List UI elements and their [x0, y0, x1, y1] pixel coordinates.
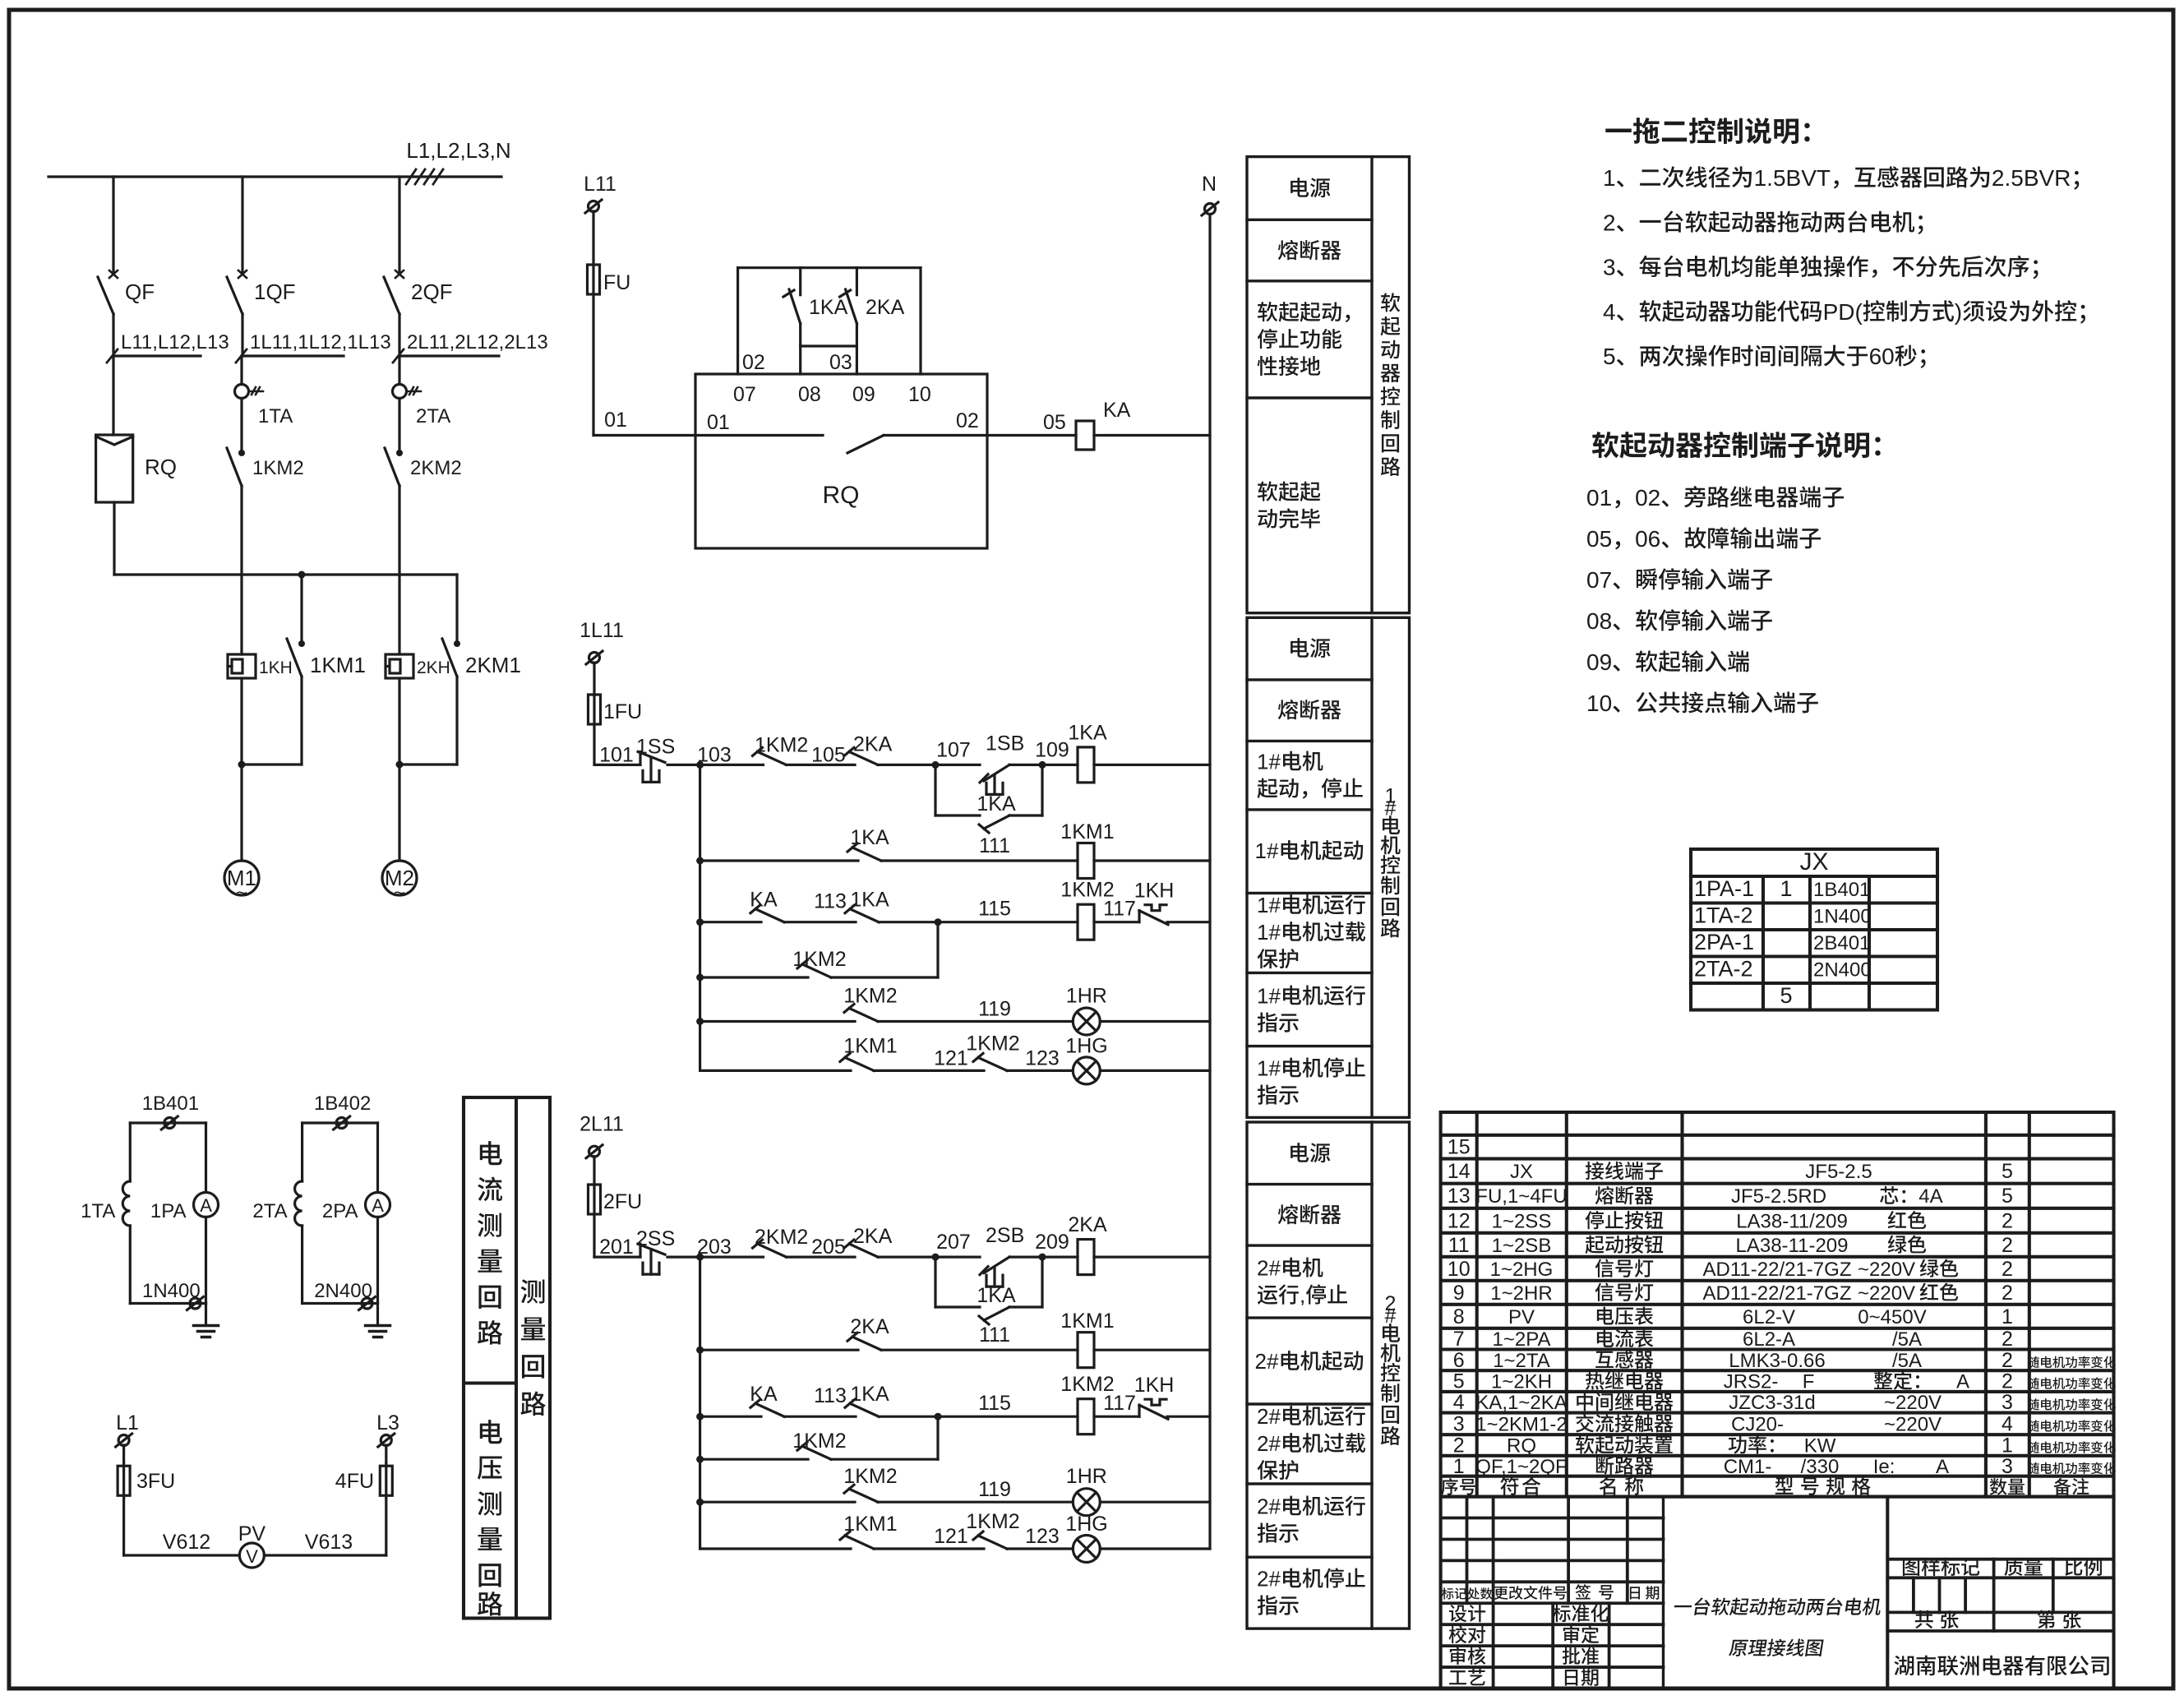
- bypass contact 1KM1: [242, 639, 302, 765]
- wire bus drop to breaker 2QF: [398, 177, 400, 271]
- svg-text:LMK3-0.66: LMK3-0.66: [1729, 1350, 1825, 1372]
- svg-text:1KH: 1KH: [259, 658, 293, 677]
- svg-text:2B401: 2B401: [1813, 932, 1870, 954]
- svg-text:1HR: 1HR: [1066, 985, 1107, 1008]
- svg-text:5: 5: [2002, 1185, 2013, 1208]
- label 1KM1: [1060, 1310, 1114, 1333]
- label 107: [936, 738, 971, 761]
- svg-text:L11: L11: [584, 173, 616, 196]
- svg-text:KA: KA: [750, 1383, 778, 1406]
- rung3 wire to N: [1167, 921, 1210, 923]
- svg-text:1KH: 1KH: [1134, 880, 1175, 903]
- svg-text:1B402: 1B402: [314, 1093, 371, 1115]
- svg-text:2SS: 2SS: [636, 1227, 675, 1250]
- contact 2KM2: [753, 1240, 787, 1257]
- label current measuring loop: [478, 1141, 502, 1345]
- labels 图样标记 质量 比例: [1903, 1558, 2102, 1576]
- terminal 1L11: [586, 651, 603, 664]
- svg-text:13: 13: [1448, 1185, 1471, 1208]
- svg-text:1KM1: 1KM1: [1060, 1310, 1114, 1333]
- breaker 1QF: [227, 270, 247, 356]
- svg-text:): ): [1955, 299, 1962, 325]
- svg-text:L11,L12,L13: L11,L12,L13: [121, 331, 229, 353]
- svg-text:AD11-22/21-7GZ: AD11-22/21-7GZ: [1703, 1259, 1852, 1281]
- fuse 2FU: [589, 1185, 601, 1214]
- CT loop top wire, terminal 1B401: [130, 1116, 205, 1129]
- svg-text:2SB: 2SB: [986, 1224, 1024, 1247]
- svg-text:JZC3-31d: JZC3-31d: [1729, 1392, 1815, 1414]
- rung3 wire, label 113: [784, 1416, 856, 1418]
- svg-text:1B401: 1B401: [142, 1093, 199, 1115]
- contactor coil 1KM2: [1078, 1399, 1094, 1434]
- svg-text:LA38-11-209: LA38-11-209: [1736, 1235, 1849, 1257]
- label 1HR: [1066, 1465, 1107, 1488]
- label L11: [584, 173, 616, 196]
- svg-text:1SS: 1SS: [636, 735, 675, 758]
- BOM table grid: [1441, 1112, 2114, 1497]
- function table box soft starter control loop: [1247, 157, 1410, 613]
- stop button 2SS: [638, 1244, 665, 1274]
- thermal contact 1KH: [1139, 1399, 1168, 1419]
- wire join to motor M1: [240, 765, 242, 861]
- svg-text:2FU: 2FU: [603, 1190, 642, 1213]
- label 1N400: [142, 1280, 201, 1302]
- connector wire 02-03: [801, 344, 857, 347]
- svg-text:60: 60: [1869, 344, 1895, 369]
- label KA: [750, 889, 778, 912]
- svg-text:111: 111: [979, 1324, 1010, 1347]
- svg-text:2QF: 2QF: [411, 279, 453, 304]
- svg-text:2#: 2#: [1257, 1404, 1281, 1429]
- rung5 wire: [700, 1547, 851, 1550]
- svg-text:AD11-22/21-7GZ: AD11-22/21-7GZ: [1703, 1282, 1852, 1305]
- label 1HR: [1066, 985, 1107, 1008]
- svg-text:1.5BVT: 1.5BVT: [1754, 165, 1831, 191]
- svg-text:1#: 1#: [1257, 750, 1281, 774]
- label 1B402: [314, 1093, 371, 1115]
- label 1KM2: [755, 733, 808, 756]
- svg-text:~: ~: [236, 882, 247, 904]
- label 01 wire number: [604, 409, 627, 432]
- ground: [366, 1304, 390, 1337]
- right info block grid: [1887, 1497, 2113, 1688]
- wire node to coil 2KA: [1042, 1255, 1078, 1258]
- wire CT to contact 1KM2: [240, 399, 242, 450]
- svg-text:1KA: 1KA: [1068, 721, 1107, 744]
- label 2QF: [411, 279, 453, 304]
- svg-text:2KM2: 2KM2: [410, 457, 462, 479]
- svg-text:205: 205: [811, 1236, 846, 1259]
- svg-text:2: 2: [2002, 1282, 2013, 1305]
- svg-text:2: 2: [2002, 1209, 2013, 1232]
- contact KA rung3: [750, 905, 784, 922]
- left branch bus: [699, 765, 701, 1070]
- label 1KA: [809, 296, 848, 319]
- label terminal 03: [829, 351, 852, 374]
- svg-text:1TA-2: 1TA-2: [1694, 903, 1753, 928]
- rung2 wire to coil, label 111: [881, 1349, 1078, 1351]
- label terminal 08: [798, 383, 821, 406]
- svg-text:09: 09: [852, 383, 875, 406]
- ammeter 1PA: [194, 1123, 219, 1304]
- svg-text:PD(: PD(: [1823, 299, 1863, 325]
- svg-text:115: 115: [978, 898, 1011, 921]
- label 4FU: [335, 1470, 374, 1493]
- svg-text:RQ: RQ: [823, 482, 860, 509]
- label 2KH: [417, 658, 450, 677]
- label 1KH: [259, 658, 293, 677]
- label FU: [603, 271, 630, 294]
- wire to node 209: [1009, 1254, 1046, 1261]
- label 109: [1035, 738, 1069, 761]
- svg-text:2KA: 2KA: [866, 296, 905, 319]
- note title 软起动器控制端子说明: [1592, 432, 1881, 459]
- contact 1KM2 sub branch: [797, 960, 831, 977]
- start button 2SB: [980, 1257, 1009, 1287]
- svg-text:KA: KA: [1103, 399, 1131, 422]
- label 2FU: [603, 1190, 642, 1213]
- svg-text:JX: JX: [1800, 848, 1829, 875]
- ground: [194, 1304, 219, 1337]
- label 1QF: [254, 279, 296, 304]
- BOM row 15 empty: [1448, 1136, 1471, 1159]
- company name 湖南联洲电器有限公司: [1894, 1656, 2108, 1676]
- svg-text:KW: KW: [1804, 1435, 1836, 1457]
- svg-text:06: 06: [1635, 526, 1660, 552]
- svg-text:7: 7: [1453, 1328, 1465, 1351]
- relay contact 1KA (terminal 08): [783, 268, 801, 374]
- rung5 wire, label 123: [1007, 1069, 1073, 1072]
- svg-text:2: 2: [2002, 1234, 2013, 1257]
- rung5 wire to N: [1100, 1069, 1210, 1072]
- svg-text:123: 123: [1025, 1525, 1060, 1548]
- rung3 wire to coil, label 115: [879, 918, 1078, 926]
- svg-text:Ie:: Ie:: [1873, 1456, 1895, 1478]
- wire L11 to fuse FU: [592, 211, 594, 265]
- contact 1KM2 rung4: [844, 1485, 878, 1502]
- svg-text:10: 10: [908, 383, 931, 406]
- svg-text:1N400: 1N400: [142, 1280, 201, 1302]
- wire to branch node 103: [667, 761, 704, 769]
- label 1TA: [258, 405, 293, 427]
- rung5 wire: [700, 1069, 851, 1072]
- thermal contact 1KH: [1139, 905, 1168, 925]
- terminal L1: [116, 1434, 132, 1447]
- svg-text:1KA: 1KA: [977, 1284, 1016, 1307]
- svg-text:4FU: 4FU: [335, 1470, 374, 1493]
- terminal note line 1: [1586, 485, 1844, 510]
- function label 软起起: [1258, 482, 1320, 529]
- terminal L3: [378, 1434, 395, 1447]
- BOM row 12 1~2SS: [1448, 1209, 2013, 1232]
- label 2TA: [416, 405, 450, 427]
- svg-text:1: 1: [2002, 1434, 2013, 1457]
- BOM row 14 JX: [1448, 1160, 2013, 1183]
- bypass branch wire 1KM1: [298, 575, 305, 647]
- label 设计 标准化: [1449, 1605, 1609, 1622]
- label terminal 02 inside: [956, 409, 979, 432]
- wire voltmeter to 4FU, label V613: [264, 1499, 386, 1555]
- label KA: [1103, 399, 1131, 422]
- contact 2KA rung2: [847, 1333, 881, 1350]
- terminal N: [1202, 202, 1218, 215]
- svg-text:2N400: 2N400: [314, 1280, 372, 1302]
- contact 1KA rung3: [845, 1399, 879, 1416]
- svg-text:PV: PV: [1508, 1306, 1535, 1328]
- wire node to contact 2KM2: [700, 1255, 764, 1258]
- title block left grid: [1441, 1497, 1664, 1688]
- BOM row 10 1~2HG: [1448, 1258, 2013, 1281]
- svg-text:~: ~: [394, 882, 405, 904]
- label 1KA rung2: [850, 826, 889, 849]
- function group label motor2 control loop: [1381, 1292, 1401, 1445]
- svg-text:1KM2: 1KM2: [755, 733, 808, 756]
- svg-text:1~2SB: 1~2SB: [1492, 1235, 1552, 1257]
- svg-text:01: 01: [604, 409, 627, 432]
- label 2KA: [1068, 1213, 1107, 1236]
- rung4 wire to N: [1100, 1501, 1210, 1504]
- rung3 wire: [696, 1413, 761, 1421]
- label 2KM1: [465, 653, 521, 677]
- svg-text:08: 08: [798, 383, 821, 406]
- svg-text:F: F: [1803, 1371, 1815, 1393]
- svg-text:2: 2: [2002, 1328, 2013, 1351]
- label 1KA rung3: [850, 1383, 889, 1406]
- svg-text:119: 119: [978, 1478, 1011, 1501]
- function label 电源: [1291, 638, 1330, 658]
- svg-text:1KM2: 1KM2: [843, 985, 897, 1008]
- svg-text:1: 1: [1780, 876, 1793, 901]
- svg-text:1~2PA: 1~2PA: [1493, 1328, 1551, 1351]
- contact 1KM2: [753, 747, 787, 765]
- svg-text:121: 121: [934, 1046, 968, 1069]
- svg-text:2: 2: [2002, 1258, 2013, 1281]
- svg-text:1L11,1L12,1L13: 1L11,1L12,1L13: [250, 331, 391, 353]
- svg-text:6L2-A: 6L2-A: [1743, 1328, 1795, 1351]
- label 1KM2 sub branch: [792, 948, 846, 971]
- rung2 wire to N: [1094, 1349, 1210, 1351]
- label 2KM2: [410, 457, 462, 479]
- terminal note line 5: [1586, 649, 1749, 675]
- function label 软起起动，: [1258, 302, 1351, 376]
- label L1,L2,L3,N: [406, 138, 510, 163]
- wire to node 207: [878, 1254, 940, 1261]
- svg-text:PV: PV: [238, 1522, 266, 1545]
- contact 1KM2 sub branch: [797, 1442, 831, 1459]
- terminal note line 4: [1586, 608, 1772, 634]
- function label 2#电机运行: [1257, 1404, 1365, 1480]
- label 203: [697, 1236, 732, 1259]
- svg-text:1PA: 1PA: [150, 1200, 187, 1222]
- svg-text:1KM1: 1KM1: [1060, 820, 1114, 843]
- svg-text:05: 05: [1043, 411, 1066, 434]
- terminal note line 3: [1586, 567, 1772, 593]
- svg-text:1~2HG: 1~2HG: [1490, 1259, 1554, 1281]
- label 2N400: [314, 1280, 372, 1302]
- label terminal 10: [908, 383, 931, 406]
- svg-text:07: 07: [733, 383, 756, 406]
- rung3 wire, label 117: [1094, 1416, 1139, 1418]
- svg-text:07: 07: [1586, 567, 1612, 593]
- BOM row 3 1~2KM1-2: [1453, 1412, 2116, 1435]
- fuse FU: [588, 265, 600, 294]
- measurement loop band table: [464, 1097, 550, 1619]
- wire, label 105: [787, 764, 856, 766]
- terminal L11: [585, 200, 602, 213]
- svg-text:117: 117: [1103, 898, 1136, 921]
- BOM row 8 PV: [1453, 1305, 2013, 1328]
- svg-text:103: 103: [697, 743, 732, 766]
- feeder tick line L11,L12,L13: [107, 349, 201, 363]
- contactor coil 1KM1: [1078, 1333, 1094, 1368]
- wire node to contact 1KM2: [700, 764, 764, 766]
- sub branch wire up to rung3: [831, 1416, 938, 1459]
- label 1KM2 sub branch: [792, 1430, 846, 1453]
- svg-text:117: 117: [1103, 1392, 1136, 1415]
- label 2SS: [636, 1227, 675, 1250]
- wire FU to rung, node 01: [593, 294, 695, 436]
- label 1KM2 coil: [1060, 879, 1114, 902]
- svg-text:1KA: 1KA: [850, 1383, 889, 1406]
- svg-text:~220V: ~220V: [1858, 1259, 1915, 1281]
- svg-text:3: 3: [1453, 1412, 1465, 1435]
- svg-text:V613: V613: [305, 1531, 353, 1554]
- contact 1KM2 rung5: [973, 1531, 1007, 1549]
- svg-text:RQ: RQ: [1507, 1435, 1536, 1457]
- JX row 1: [1694, 876, 1870, 901]
- svg-text:JRS2-: JRS2-: [1724, 1371, 1779, 1393]
- svg-text:QF,1~2QF: QF,1~2QF: [1475, 1456, 1567, 1478]
- JX row 4: [1694, 957, 1872, 982]
- svg-text:111: 111: [979, 834, 1010, 857]
- wire to branch node 203: [667, 1254, 704, 1261]
- label 3FU: [136, 1470, 175, 1493]
- contact KA rung3: [750, 1399, 784, 1416]
- BOM row 6 1~2TA: [1453, 1349, 2116, 1372]
- function label 熔断器: [1278, 240, 1341, 261]
- label JX: [1800, 848, 1829, 875]
- svg-text:2KA: 2KA: [1068, 1213, 1107, 1236]
- wire RQ output down: [113, 502, 115, 575]
- rung3 wire, label 117: [1094, 921, 1139, 923]
- svg-text:02: 02: [1635, 485, 1660, 510]
- ammeter 2PA: [366, 1123, 390, 1304]
- contact 2KA: [844, 1240, 878, 1257]
- rung4 wire to N: [1100, 1020, 1210, 1023]
- RQ internal bypass contact: [695, 436, 987, 454]
- thermal relay element 2KH: [386, 654, 413, 678]
- function label 2#电机起动: [1255, 1349, 1364, 1374]
- svg-text:3: 3: [2002, 1391, 2013, 1414]
- svg-text:1KM2: 1KM2: [252, 457, 304, 479]
- svg-text:A: A: [372, 1195, 384, 1216]
- rung2 wire to N: [1094, 859, 1210, 862]
- label terminal 07: [733, 383, 756, 406]
- motor M2: [382, 861, 417, 904]
- svg-text:1KM1: 1KM1: [310, 653, 366, 677]
- JX terminal table grid: [1691, 849, 1937, 1010]
- stop button 1SS: [638, 751, 665, 782]
- svg-text:1~2HR: 1~2HR: [1490, 1282, 1552, 1305]
- function table box motor2 control loop: [1247, 1122, 1410, 1628]
- svg-text:2L11: 2L11: [579, 1113, 624, 1136]
- svg-text:203: 203: [697, 1236, 732, 1259]
- svg-text:2PA-1: 2PA-1: [1694, 930, 1754, 954]
- relay coil 1KA: [1078, 747, 1094, 783]
- label 209: [1035, 1231, 1069, 1254]
- svg-text:209: 209: [1035, 1231, 1069, 1254]
- svg-text:10: 10: [1586, 691, 1612, 716]
- rung5 wire, label 121: [874, 1547, 984, 1550]
- wire N bus: [1208, 215, 1211, 1549]
- svg-text:1N400: 1N400: [1813, 906, 1872, 928]
- svg-text:1HG: 1HG: [1065, 1034, 1107, 1057]
- label 1KA: [1068, 721, 1107, 744]
- svg-text:1PA-1: 1PA-1: [1694, 876, 1754, 901]
- svg-text:121: 121: [934, 1525, 968, 1548]
- label RQ: [823, 482, 860, 509]
- label 05: [1043, 411, 1066, 434]
- svg-text:1~2KM1-2: 1~2KM1-2: [1475, 1413, 1567, 1435]
- wire node to start button: [935, 1255, 980, 1258]
- svg-text:1KM2: 1KM2: [792, 1430, 846, 1453]
- svg-text:123: 123: [1025, 1046, 1060, 1069]
- wire to node 107: [878, 761, 940, 769]
- label 1SS: [636, 735, 675, 758]
- seal-in branch with contact 1KA: [935, 1257, 1042, 1324]
- rung3 wire to coil, label 115: [879, 1413, 1078, 1421]
- contactor main contact 2KM2: [385, 448, 403, 486]
- svg-text:~220V: ~220V: [1884, 1413, 1942, 1435]
- svg-text:1SB: 1SB: [986, 732, 1024, 755]
- svg-text:11: 11: [1448, 1234, 1470, 1257]
- svg-text:6L2-V: 6L2-V: [1743, 1306, 1795, 1328]
- svg-text:15: 15: [1448, 1136, 1471, 1159]
- terminal 2L11: [586, 1145, 603, 1158]
- feeder tick line 2L11,2L12,2L13: [393, 349, 499, 363]
- label 审核 批准: [1450, 1647, 1599, 1665]
- rung2 wire: [696, 857, 858, 865]
- JX row 2: [1694, 903, 1872, 928]
- start button 1SB: [980, 765, 1009, 794]
- terminal note line 6: [1586, 691, 1818, 716]
- svg-text:CM1-: CM1-: [1724, 1456, 1772, 1478]
- svg-text:2#: 2#: [1257, 1431, 1281, 1456]
- label 1HG: [1065, 1034, 1107, 1057]
- svg-text:KA,1~2KA: KA,1~2KA: [1475, 1392, 1567, 1414]
- contact 1KM1 rung5: [840, 1053, 874, 1070]
- svg-text:/5A: /5A: [1892, 1328, 1922, 1351]
- wire, label 205: [787, 1255, 856, 1258]
- svg-text:2#: 2#: [1255, 1349, 1279, 1374]
- CT loop bottom wire, terminal 1N400: [130, 1297, 205, 1310]
- svg-text:2KM2: 2KM2: [755, 1226, 808, 1249]
- voltmeter PV: [239, 1543, 264, 1568]
- label 1B401: [142, 1093, 199, 1115]
- rung5 wire to N: [1100, 1547, 1210, 1550]
- svg-text:119: 119: [978, 998, 1011, 1021]
- label 1TA: [81, 1200, 115, 1222]
- wire L1 to fuse 3FU: [122, 1445, 125, 1463]
- svg-text:02: 02: [956, 409, 979, 432]
- fuse 1FU: [589, 695, 601, 724]
- relay coil 2KA: [1078, 1240, 1094, 1275]
- svg-text:V612: V612: [163, 1531, 210, 1554]
- svg-text:L1: L1: [116, 1411, 139, 1434]
- svg-text:4A: 4A: [1919, 1185, 1942, 1208]
- wire coil to N: [1094, 1255, 1210, 1258]
- label 1KM2 rung4: [843, 1465, 897, 1488]
